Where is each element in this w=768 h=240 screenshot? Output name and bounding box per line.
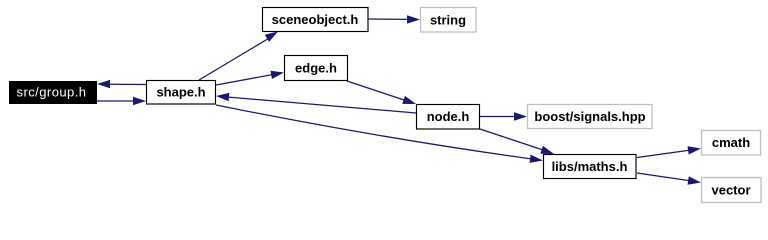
wire node.h->boost/signals.hpp — [480, 112, 527, 120]
wire shape.h->libs/maths.h — [216, 105, 543, 163]
node src/group.h (root) — [9, 81, 97, 104]
svg-text:shape.h: shape.h — [156, 85, 205, 100]
node libs/maths.h — [544, 155, 637, 179]
svg-text:libs/maths.h: libs/maths.h — [552, 159, 628, 174]
svg-text:sceneobject.h: sceneobject.h — [272, 12, 359, 27]
svg-text:node.h: node.h — [427, 109, 470, 124]
wire libs/maths.h->cmath — [637, 146, 701, 157]
wire shape.h->edge.h — [216, 71, 284, 85]
svg-text:cmath: cmath — [712, 135, 750, 150]
node cmath — [702, 131, 761, 156]
wire src/group.h->shape.h — [97, 97, 146, 105]
wire sceneobject.h->string — [368, 15, 420, 23]
wire shape.h->src/group.h — [97, 80, 146, 88]
svg-text:string: string — [430, 13, 466, 28]
svg-text:edge.h: edge.h — [295, 61, 337, 76]
wire node.h->shape.h — [216, 93, 416, 113]
node string — [421, 8, 477, 33]
node edge.h — [285, 56, 348, 81]
wire node.h->libs/maths.h — [480, 129, 554, 154]
node shape.h — [147, 81, 216, 105]
node vector — [702, 178, 762, 203]
node sceneobject.h — [263, 8, 369, 32]
svg-text:boost/signals.hpp: boost/signals.hpp — [534, 109, 645, 124]
node node.h — [417, 105, 480, 130]
wire shape.h->sceneobject.h — [199, 32, 278, 81]
wire libs/maths.h->vector — [637, 173, 701, 185]
wire edge.h->node.h — [347, 81, 416, 104]
svg-text:src/group.h: src/group.h — [17, 85, 87, 100]
svg-text:vector: vector — [711, 183, 750, 198]
node boost/signals.hpp — [528, 105, 653, 129]
